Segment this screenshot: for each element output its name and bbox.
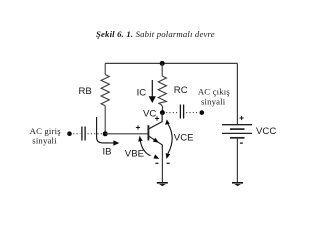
ground (battery)	[232, 182, 243, 184]
capacitor: input coupling	[82, 127, 85, 141]
svg-text:VBE: VBE	[125, 149, 144, 160]
current arrow IB	[97, 117, 114, 143]
svg-text:VC: VC	[143, 108, 156, 119]
node: AC input terminal dot	[67, 131, 72, 136]
wire: base wire to transistor	[105, 133, 148, 135]
node: top junction dot	[160, 61, 165, 66]
wire: dotted output right segment	[186, 112, 198, 114]
resistor RB	[101, 75, 109, 106]
transistor Q1: collector lead	[149, 113, 162, 129]
voltage arrow VBE	[140, 140, 150, 156]
svg-text:sinyali: sinyali	[201, 96, 226, 106]
wire: RB bottom lead	[104, 106, 106, 134]
wire: RC top lead	[161, 63, 163, 76]
capacitor: output coupling	[180, 105, 183, 119]
label: + at battery	[240, 116, 244, 120]
svg-text:VCE: VCE	[174, 133, 194, 144]
label: + at collector	[155, 116, 159, 120]
voltage arrow VCE	[167, 123, 172, 154]
node: base junction dot	[103, 131, 108, 136]
label: - at emitter (right)	[167, 162, 170, 164]
transistor Q1: base bar	[147, 125, 149, 140]
ground (emitter)	[157, 182, 168, 184]
node: collector dot (VC)	[160, 110, 165, 115]
svg-text:VCC: VCC	[256, 126, 276, 137]
svg-text:RC: RC	[174, 85, 188, 96]
battery VCC	[222, 124, 252, 126]
resistor RC	[158, 76, 166, 110]
wire: dotted input right segment	[88, 133, 102, 135]
wire: battery to ground	[236, 138, 238, 182]
wire: top rail from RB top to VCC branch	[105, 62, 237, 64]
wire: dotted output left segment	[166, 112, 179, 114]
wire: right rail down to battery	[236, 63, 238, 124]
wire: RC bottom lead to collector node	[161, 109, 163, 113]
svg-text:IC: IC	[137, 88, 147, 99]
label: - at emitter (left)	[155, 162, 158, 164]
svg-text:AC çıkış: AC çıkış	[198, 86, 231, 96]
label: + at base	[136, 125, 140, 129]
svg-text:RB: RB	[79, 86, 92, 97]
svg-text:Şekil 6. 1. Sabit polarmalı de: Şekil 6. 1. Sabit polarmalı devre	[96, 29, 215, 39]
wire: RB top lead	[104, 63, 106, 74]
svg-text:AC giriş: AC giriş	[30, 126, 62, 136]
transistor Q1: emitter lead with arrow	[149, 136, 162, 148]
svg-text:sinyali: sinyali	[32, 136, 57, 146]
label: - at battery	[240, 142, 243, 144]
wire: dotted input left segment	[73, 133, 80, 135]
current arrow IC	[151, 80, 153, 97]
wire: emitter to ground	[161, 148, 163, 182]
node: AC output terminal dot	[200, 110, 205, 115]
svg-text:IB: IB	[103, 147, 112, 158]
